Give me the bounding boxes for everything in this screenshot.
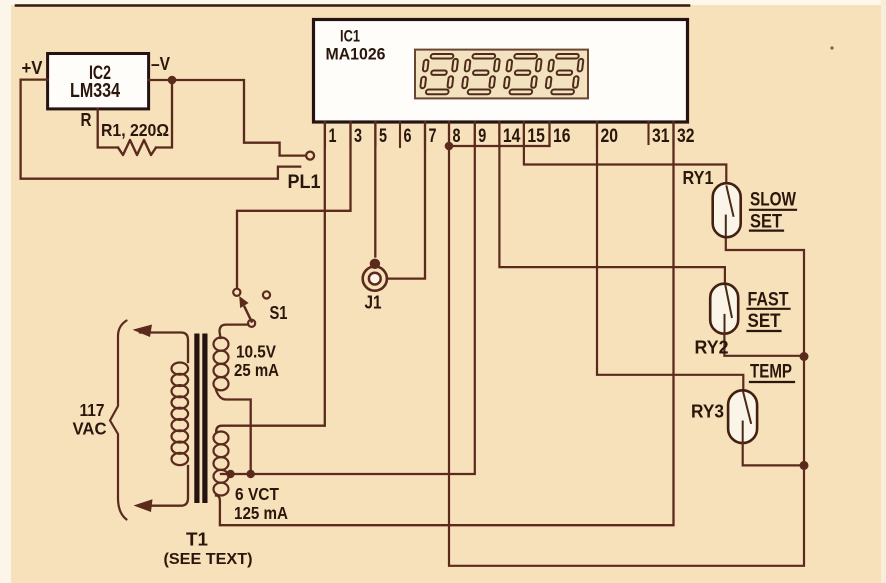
wire pin 8 down to bottom bus and right-side relay bus xyxy=(449,122,804,566)
wire pin 8 to pin 16 link xyxy=(449,123,550,146)
wire RY3 bottom to bus xyxy=(743,443,801,466)
wire pin 7 to J1 sleeve xyxy=(388,122,425,279)
svg-text:SET: SET xyxy=(750,212,782,233)
svg-text:7: 7 xyxy=(429,126,437,147)
svg-text:20: 20 xyxy=(601,126,619,147)
resistor R1 220 ohm xyxy=(98,109,118,148)
pin 32 of IC1 (stub + number) xyxy=(672,122,674,146)
svg-text:+V: +V xyxy=(22,58,43,78)
IC1 MA1026 clock module box xyxy=(314,20,688,123)
svg-text:9: 9 xyxy=(478,126,486,147)
svg-text:RY3: RY3 xyxy=(691,401,724,422)
wire pin 15 to RY1 top xyxy=(524,122,726,183)
svg-text:10.5V: 10.5V xyxy=(236,342,276,362)
node bus junction RY3 xyxy=(800,461,809,470)
svg-text:R1, 220Ω: R1, 220Ω xyxy=(101,120,169,140)
pin 7 of IC1 (stub + number) xyxy=(424,122,426,146)
switch S1 contacts xyxy=(233,289,240,296)
node pin-8 junction xyxy=(445,142,454,151)
svg-text:S1: S1 xyxy=(270,302,288,323)
svg-text:MA1026: MA1026 xyxy=(326,45,386,64)
transformer T1 core xyxy=(194,334,199,504)
pin 1 of IC1 (stub + number) xyxy=(324,122,326,146)
seven-segment display window of IC1 xyxy=(415,50,588,99)
svg-text:SLOW: SLOW xyxy=(750,190,796,211)
scan speck xyxy=(830,46,833,49)
connector PL1 tip (open circle) xyxy=(306,152,314,160)
svg-text:32: 32 xyxy=(677,126,695,147)
pin 8 of IC1 (stub + number) xyxy=(448,122,450,146)
transformer T1 primary winding xyxy=(172,363,189,375)
wire -V: IC2 right to junction and PL1 upper prong xyxy=(149,80,306,156)
svg-text:FAST: FAST xyxy=(748,290,789,311)
pin 9 of IC1 (stub + number) xyxy=(474,122,476,146)
pin 15 of IC1 (stub + number) xyxy=(523,122,525,146)
T1 primary top lead with arrow xyxy=(140,333,188,363)
svg-text:PL1: PL1 xyxy=(288,172,321,193)
svg-text:VAC: VAC xyxy=(73,419,107,439)
pin 14 of IC1 (stub + number) xyxy=(498,122,500,146)
svg-text:31: 31 xyxy=(652,126,670,147)
jack J1 inner ring xyxy=(369,273,381,285)
wire 10.5V secondary bottom to center tap xyxy=(216,390,251,471)
svg-text:SET: SET xyxy=(748,311,781,332)
op-amp/regulator IC2 LM334 box xyxy=(48,54,149,109)
wire +V loop: IC2 left to PL1 lower prong xyxy=(21,80,301,179)
wire pin 20 to RY3 top xyxy=(597,122,743,390)
pin 3 of IC1 (stub + number) xyxy=(349,122,351,146)
svg-text:–V: –V xyxy=(151,54,170,74)
svg-text:25 mA: 25 mA xyxy=(234,360,279,380)
switch S1 lever with arrowhead xyxy=(245,307,252,322)
display digit 1 xyxy=(419,54,458,94)
pin 5 of IC1 (stub + number) xyxy=(374,122,376,146)
relay RY2 reed switch xyxy=(710,284,738,334)
svg-text:117: 117 xyxy=(80,400,105,420)
svg-text:6: 6 xyxy=(404,126,412,147)
wire pin 3 to S1 top contact xyxy=(237,122,351,289)
svg-text:16: 16 xyxy=(553,126,571,147)
117 VAC brace xyxy=(110,321,127,520)
relay RY3 reed switch xyxy=(728,390,757,443)
relay RY1 reed switch xyxy=(713,183,741,237)
transformer T1 secondary 6VCT winding xyxy=(214,432,229,445)
svg-text:LM334: LM334 xyxy=(70,80,121,102)
node bus junction RY2 xyxy=(800,352,809,361)
pin 20 of IC1 (stub + number) xyxy=(596,122,598,146)
node -V junction xyxy=(168,76,177,85)
svg-text:3: 3 xyxy=(354,126,362,147)
jack J1 tip blob xyxy=(370,259,380,269)
svg-text:15: 15 xyxy=(527,126,545,147)
display digit 3 xyxy=(503,54,542,94)
svg-text:1: 1 xyxy=(329,126,337,147)
top border frame line xyxy=(16,4,689,7)
wire pin 5 to J1 tip xyxy=(374,122,376,257)
svg-text:RY2: RY2 xyxy=(695,337,729,358)
wire S1 common to 10.5V secondary top xyxy=(220,325,249,338)
jack J1 outer ring xyxy=(363,267,387,291)
wire pin 14 to RY2 top xyxy=(499,122,725,284)
node center tap junctions xyxy=(226,470,234,478)
wire pin 1 to T1 6VCT secondary top xyxy=(216,122,325,432)
svg-text:TEMP: TEMP xyxy=(750,362,792,383)
wire RY2 bottom to bus xyxy=(724,334,801,356)
svg-text:14: 14 xyxy=(503,126,521,147)
wire pin 32 to T1 6VCT secondary bottom xyxy=(216,122,674,525)
svg-text:T1: T1 xyxy=(186,530,208,550)
display digit 2 xyxy=(461,54,500,94)
wire pin 9 to T1 center tap xyxy=(221,122,475,474)
svg-text:5: 5 xyxy=(379,126,387,147)
pin 6 of IC1 (stub + number) xyxy=(399,122,401,147)
svg-text:125 mA: 125 mA xyxy=(234,503,288,523)
svg-text:J1: J1 xyxy=(365,292,382,313)
svg-text:RY1: RY1 xyxy=(683,167,714,188)
svg-text:6 VCT: 6 VCT xyxy=(235,484,279,504)
pin 31 of IC1 (stub + number) xyxy=(647,122,649,144)
display digit 4 xyxy=(545,54,584,94)
svg-text:R: R xyxy=(81,110,92,130)
T1 primary bottom lead with arrow xyxy=(140,466,188,506)
svg-text:IC1: IC1 xyxy=(340,27,360,46)
svg-text:8: 8 xyxy=(453,126,461,147)
pin 16 of IC1 (stub + number) xyxy=(548,122,550,146)
svg-text:(SEE TEXT): (SEE TEXT) xyxy=(164,551,253,568)
transformer T1 secondary 10.5V winding xyxy=(214,338,229,351)
